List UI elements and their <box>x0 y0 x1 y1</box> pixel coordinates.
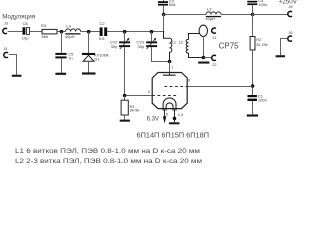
node junction dot (C3 / top rail) <box>162 13 166 17</box>
connector J6 <box>288 30 294 41</box>
svg-text:6n8: 6n8 <box>169 2 176 7</box>
svg-text:9k6: 9k6 <box>42 34 49 39</box>
svg-text:30p: 30p <box>111 44 118 49</box>
ground (J4) <box>12 75 22 77</box>
wire CV2 to grid node <box>124 47 126 95</box>
wire down to D1 <box>88 32 90 53</box>
node junction dot (screen / C1) <box>251 84 255 88</box>
wire anode node to tube pin 7 <box>169 62 171 73</box>
capacitor C4 100n <box>247 0 267 15</box>
inductor L1 (tank coil) <box>164 32 177 62</box>
ground (J6) <box>276 55 285 57</box>
resistor R2 2k 2W <box>250 37 268 51</box>
tube control grid (dashed, pin 2) <box>148 89 177 96</box>
svg-text:30p: 30p <box>138 44 145 49</box>
wire to J2 <box>204 57 212 59</box>
wire grid node to tube pin 2 <box>125 95 153 97</box>
wire R2 down to screen node <box>252 50 254 95</box>
wire R3 to L4 <box>57 31 66 33</box>
resistor R3 <box>41 23 57 39</box>
node junction dot (J2 / ground) <box>202 56 206 60</box>
tube cathode / heater loop <box>163 98 176 111</box>
node junction dot (CV1 tap) <box>150 30 154 34</box>
node junction dot (C5 tap) <box>60 30 64 34</box>
inductor L4 40uH <box>65 24 81 39</box>
wire top rail to L3 <box>164 14 207 16</box>
capacitor C6 (electrolytic 10u) <box>22 21 30 40</box>
capacitor C5 1n <box>55 52 74 61</box>
ground (C5) <box>55 73 66 75</box>
wire down to C5 <box>61 32 63 53</box>
wire C1 to ground <box>252 101 254 114</box>
tube anode plate (pin 7) <box>163 65 176 75</box>
connector J3 <box>3 20 9 33</box>
wire screen grid to node <box>187 86 252 88</box>
svg-text:100n: 100n <box>258 2 267 7</box>
inductor L3 40uH <box>205 6 221 21</box>
wire L4 to C2 <box>81 31 100 33</box>
wire C6 to R3 <box>30 31 43 33</box>
svg-text:L2 2-3 витка ПЭЛ, ПЭВ 0.8-1.0: L2 2-3 витка ПЭЛ, ПЭВ 0.8-1.0 мм на D к-… <box>15 158 202 165</box>
wire top rail junction down to tank node <box>163 15 165 32</box>
inductor L2 (coupling coil) <box>179 34 204 58</box>
node junction dot (anode node) <box>168 60 172 64</box>
coax jack body (ellipse at J1) <box>199 25 207 36</box>
svg-text:L4: L4 <box>66 24 71 29</box>
svg-text:5.6: 5.6 <box>99 36 105 41</box>
svg-text:6.3V: 6.3V <box>147 117 159 123</box>
variable capacitor CV2 30p <box>110 38 130 49</box>
svg-text:C6: C6 <box>23 21 29 26</box>
svg-text:L2: L2 <box>179 39 184 44</box>
ground (C1) <box>247 114 258 116</box>
svg-text:L1 6 витков ПЭЛ, ПЭВ 0.8-1.0 м: L1 6 витков ПЭЛ, ПЭВ 0.8-1.0 мм на D к-с… <box>15 148 200 155</box>
connector J2 <box>212 55 217 67</box>
svg-text:L1: L1 <box>172 40 177 45</box>
variable capacitor CV1 30p <box>136 38 157 49</box>
tube V1 envelope <box>152 73 187 109</box>
connector J1 <box>212 28 217 40</box>
wire CV1 down and right to anode node <box>152 47 170 61</box>
svg-text:10μ: 10μ <box>22 36 29 41</box>
ground (cathode) <box>169 122 180 124</box>
wire down to CV1 <box>151 32 153 42</box>
svg-text:6П14П 6П15П 6П18П: 6П14П 6П15П 6П18П <box>137 130 210 139</box>
capacitor C3 6n8 <box>158 0 176 7</box>
wire C5 to ground <box>61 58 63 73</box>
wire to J5 <box>253 14 288 16</box>
wire L3 to C4 junction <box>221 14 253 16</box>
svg-text:R3: R3 <box>41 23 47 28</box>
svg-text:C2: C2 <box>100 21 106 26</box>
wire J4 to ground <box>9 55 17 75</box>
tube pin 5 (heater to 6.3V, arrow) <box>163 109 169 124</box>
wire down to CV2 <box>124 32 126 42</box>
capacitor C2 5.6 <box>99 21 107 41</box>
svg-text:2k 2W: 2k 2W <box>256 42 268 47</box>
svg-text:Модуляция: Модуляция <box>2 13 35 20</box>
node junction dot (CV2 tap) <box>123 30 127 34</box>
wire C3 to top rail junction <box>163 6 165 15</box>
svg-text:3k-5k: 3k-5k <box>130 108 140 113</box>
svg-text:D1: D1 <box>94 57 100 62</box>
node junction dot (C4 / +250V rail) <box>251 13 255 17</box>
capacitor C1 100n <box>248 93 267 102</box>
wire J6 to ground <box>281 39 288 56</box>
ground (output) <box>198 62 209 64</box>
resistor R1 3k-5k <box>121 96 139 120</box>
wire D1 to ground <box>88 61 90 73</box>
wire C2 to tank node <box>107 31 164 33</box>
connector J5 <box>288 4 294 17</box>
wire J3 to C6 <box>8 31 23 33</box>
tube screen grid (dashed, pin 9) <box>164 78 191 87</box>
connector J4 <box>3 46 8 57</box>
ground (D1) <box>82 72 96 74</box>
node junction dot (grid / R1) <box>123 94 127 98</box>
svg-text:L3: L3 <box>207 6 212 11</box>
svg-text:1n: 1n <box>68 55 72 60</box>
svg-text:40μH: 40μH <box>205 16 215 21</box>
svg-text:100n: 100n <box>258 97 267 102</box>
svg-text:CP75: CP75 <box>219 41 240 50</box>
svg-text:40μH: 40μH <box>65 34 75 39</box>
tube pins 4,3 (cathode+heater to ground) <box>173 109 184 123</box>
wire rail down to R2 <box>252 15 254 37</box>
ground (R1) <box>120 120 130 122</box>
wire ellipse down to J2 node <box>203 37 205 58</box>
node junction dot (D1 tap) <box>87 30 91 34</box>
varicap diode D1 KV106A <box>82 53 109 62</box>
svg-text:4,3: 4,3 <box>178 112 184 117</box>
